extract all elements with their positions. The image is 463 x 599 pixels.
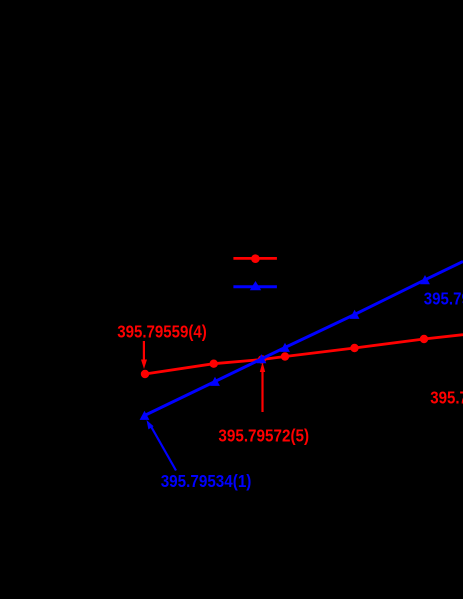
svg-text:395.79560(5): 395.79560(5) (430, 388, 463, 408)
svg-text:395.79588(8): 395.79588(8) (424, 289, 463, 309)
svg-text:395.79534(1): 395.79534(1) (161, 471, 252, 491)
svg-text:395.79572(5): 395.79572(5) (218, 426, 309, 446)
svg-text:395.79559(4): 395.79559(4) (117, 321, 207, 341)
